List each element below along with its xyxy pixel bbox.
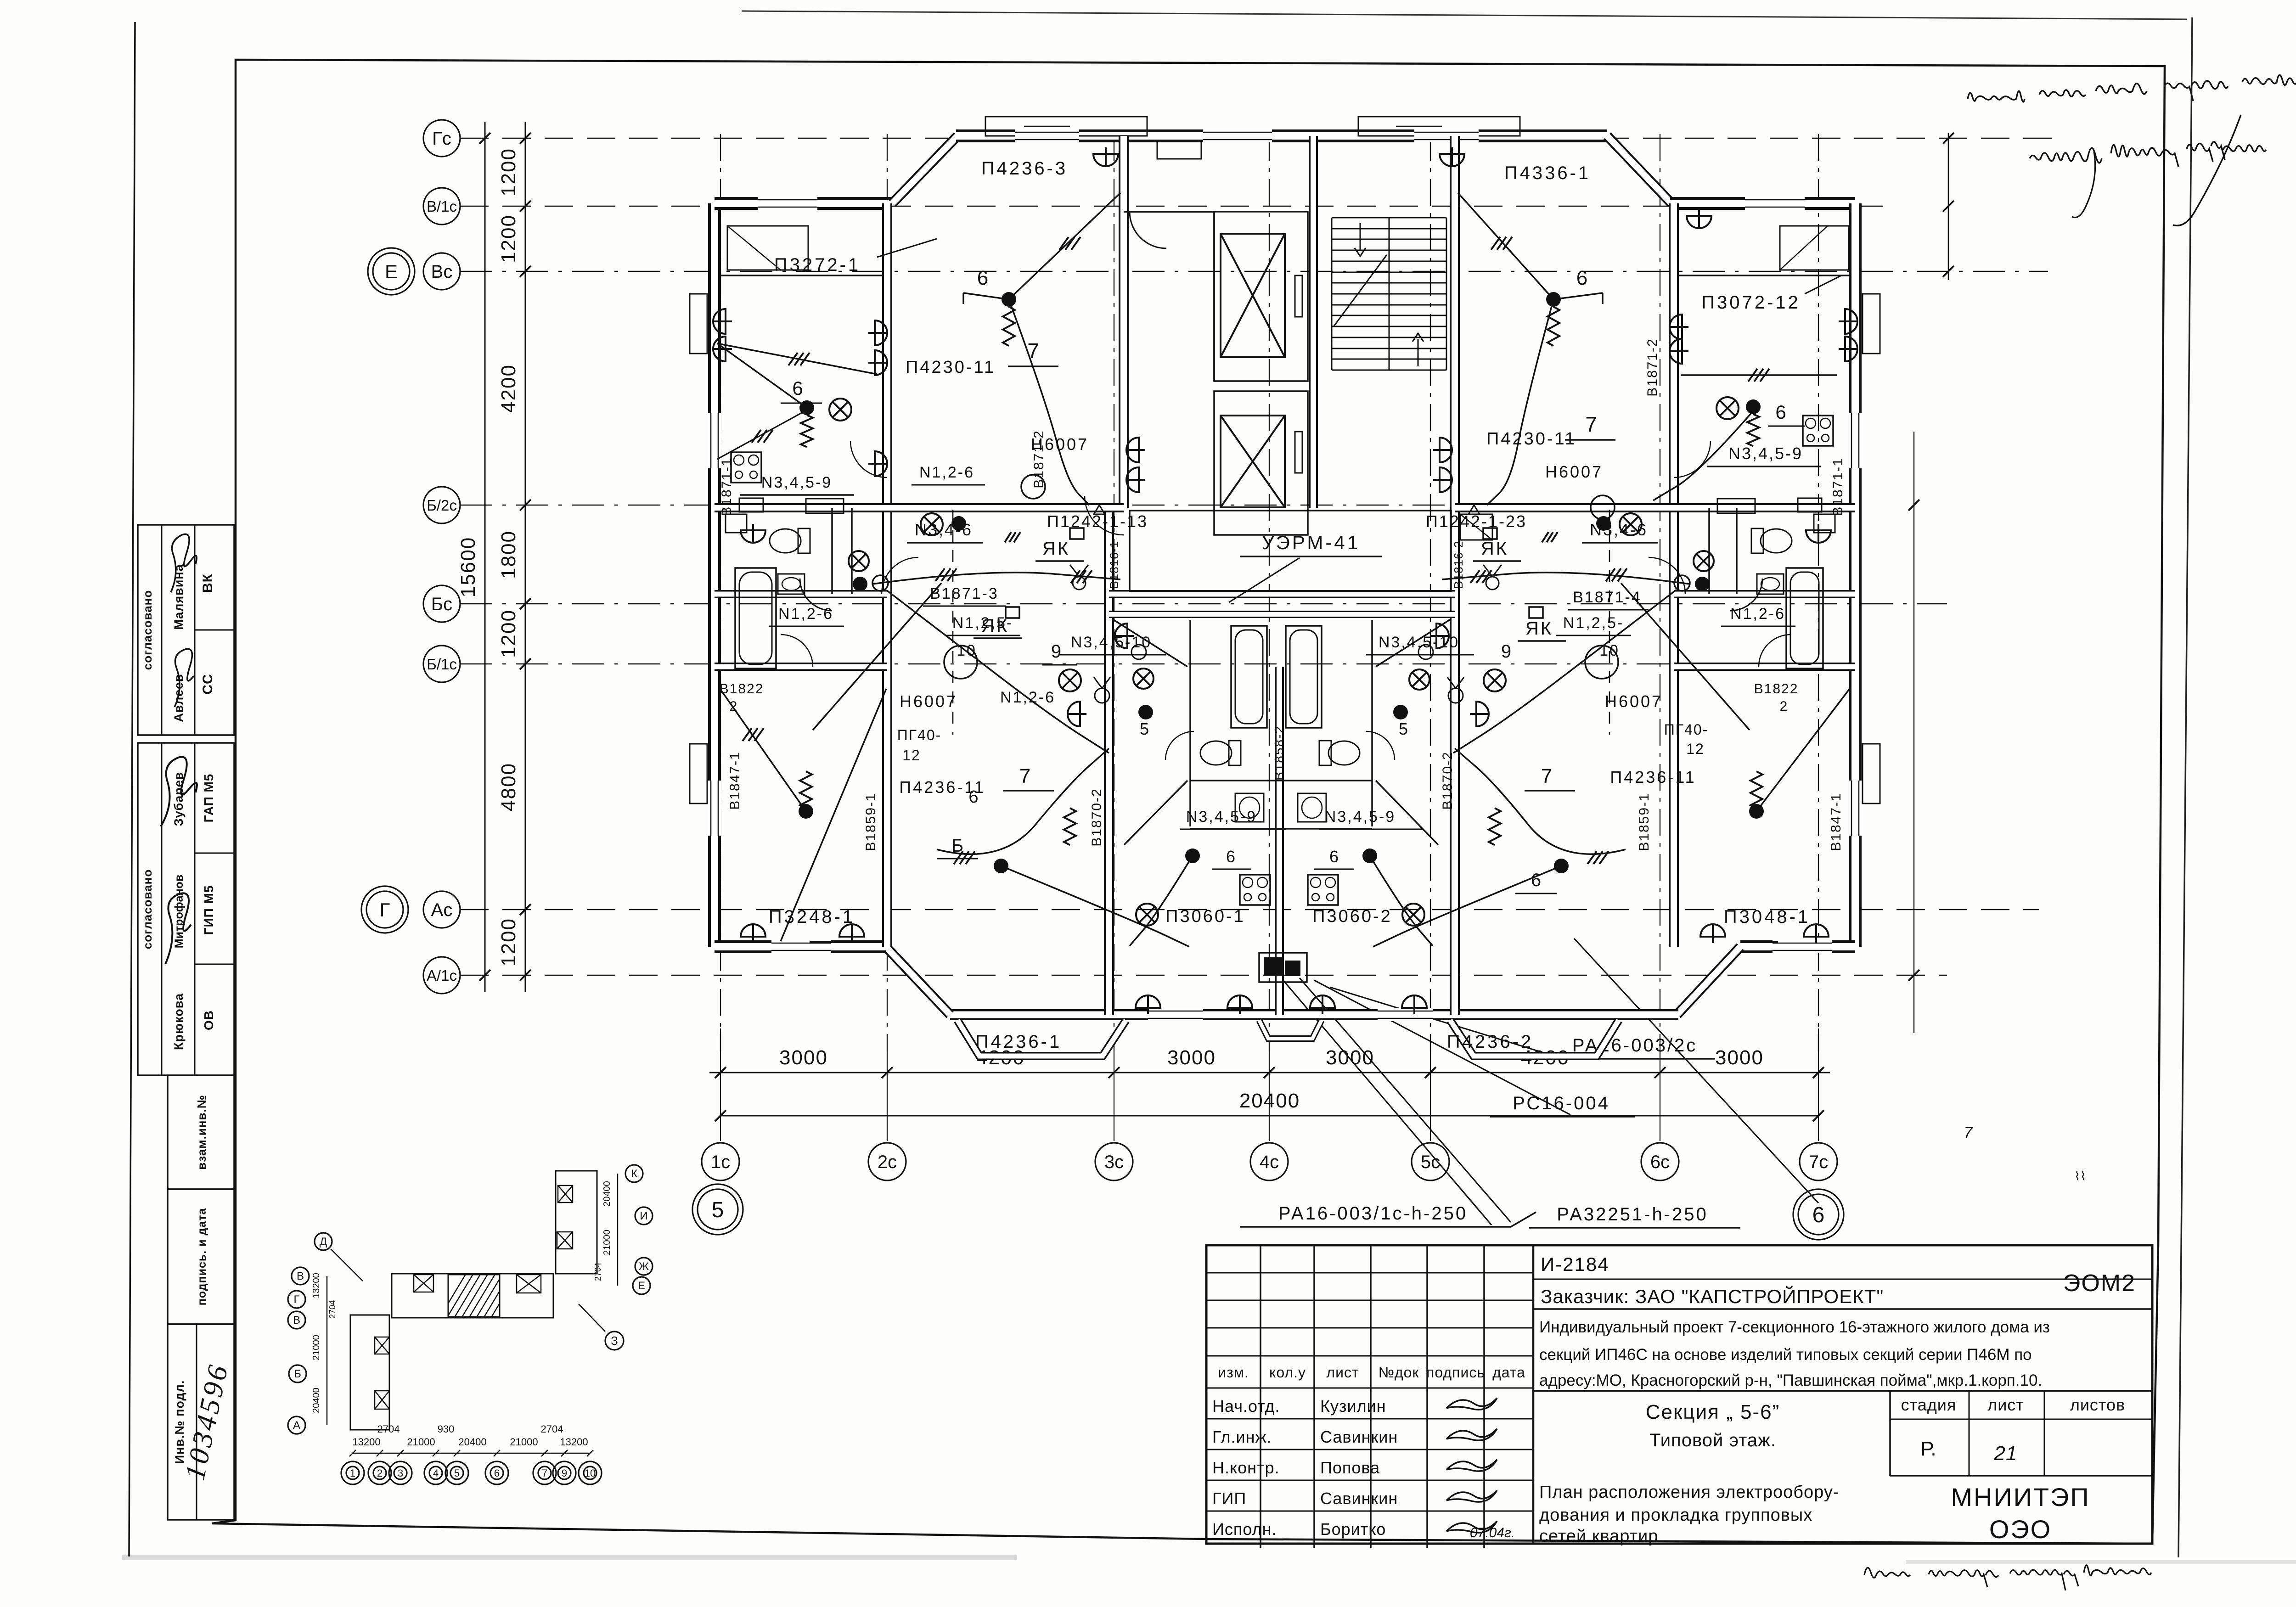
svg-text:подпись. и дата: подпись. и дата	[196, 1208, 208, 1306]
left strip signature squiggle 2	[161, 757, 197, 826]
svg-text:4с: 4с	[1260, 1152, 1279, 1172]
ceiling rose + drop, top-left apt	[1002, 292, 1016, 307]
axis circle А/1с	[423, 957, 460, 994]
axis line А/1с	[460, 975, 1947, 976]
door swing arcs	[1085, 496, 1124, 535]
stair mid stringer	[1389, 218, 1390, 370]
junction box ЯК left	[1070, 528, 1084, 539]
svg-text:N3,4,5-10: N3,4,5-10	[1071, 634, 1152, 651]
svg-text:7: 7	[1019, 765, 1030, 787]
svg-text:ГИП М5: ГИП М5	[202, 885, 216, 935]
svg-text:Вс: Вс	[431, 262, 453, 282]
svg-text:N3,4,5-9: N3,4,5-9	[761, 474, 832, 491]
dashed boundary right	[1609, 510, 1610, 735]
entry hall diagonal wall SE	[1376, 781, 1438, 845]
svg-text:6: 6	[1576, 267, 1587, 289]
bay window SW (П4236-1)	[957, 1020, 1126, 1056]
svg-text:П4230-11: П4230-11	[906, 358, 996, 377]
corridor wires left	[872, 573, 1120, 584]
svg-text:Б/2с: Б/2с	[427, 497, 457, 514]
svg-text:2с: 2с	[878, 1152, 897, 1172]
svg-text:Бс: Бс	[431, 594, 452, 614]
vertical axis line 6с	[1660, 134, 1660, 1051]
УЭРМ room walls	[1130, 511, 1451, 591]
svg-text:21000: 21000	[407, 1436, 435, 1448]
svg-text:7: 7	[542, 1467, 547, 1479]
svg-text:А: А	[293, 1419, 300, 1432]
svg-text:Гл.инж.: Гл.инж.	[1212, 1427, 1272, 1446]
svg-text:подпись: подпись	[1426, 1364, 1485, 1381]
svg-text:Савинкин: Савинкин	[1320, 1427, 1398, 1446]
counter right wing	[1717, 499, 1755, 513]
wall between lifts and stair x2860	[1309, 136, 1318, 508]
partition top-right apt y600	[1678, 275, 1851, 276]
left strip box 3 (взам.инв.№)	[168, 1075, 234, 1189]
svg-text:Ас: Ас	[431, 900, 453, 920]
svg-text:П3248-1: П3248-1	[769, 907, 855, 927]
svg-text:ЭОМ2: ЭОМ2	[2063, 1270, 2136, 1297]
svg-text:6: 6	[968, 787, 978, 807]
center-left apartment wiring	[937, 748, 1109, 854]
svg-text:ОВ: ОВ	[202, 1010, 216, 1030]
wall stair east x3168	[1450, 136, 1460, 508]
axis circle Б/1с	[423, 646, 460, 682]
shower tray center right	[1298, 793, 1326, 822]
svg-text:10: 10	[585, 1467, 596, 1479]
axis circle В/1с	[423, 188, 460, 225]
svg-text:Попова: Попова	[1320, 1458, 1380, 1477]
extension line axis	[1114, 1051, 1114, 1141]
axis line Ас	[460, 909, 2039, 910]
shower tray center left	[1235, 793, 1264, 822]
svg-text:4200: 4200	[497, 364, 520, 413]
svg-text:6: 6	[792, 377, 803, 399]
sink right wing	[1757, 574, 1784, 594]
junction box ЯК right	[1483, 528, 1497, 539]
svg-text:П4336-1: П4336-1	[1504, 163, 1591, 183]
svg-text:2704: 2704	[593, 1263, 602, 1281]
axis circle Ас	[423, 891, 460, 928]
right side extension dim lines	[1948, 133, 1949, 280]
svg-text:В: В	[297, 1270, 304, 1282]
lift shaft 2 outer	[1214, 391, 1308, 535]
key plan axis circle Д	[315, 1233, 332, 1250]
svg-text:Б: Б	[951, 836, 963, 856]
WC center left	[1200, 741, 1241, 765]
axis line Б/1с	[460, 663, 1855, 665]
svg-text:6: 6	[977, 267, 988, 289]
axis circle Е (double)	[373, 253, 410, 290]
circle+cross symbols scattered	[921, 513, 943, 535]
floor distribution boxes center bottom	[1264, 957, 1282, 976]
svg-text:6: 6	[1226, 847, 1235, 866]
key plan axis circle В	[292, 1267, 309, 1285]
svg-text:В1871-2: В1871-2	[1645, 338, 1660, 396]
svg-text:4800: 4800	[497, 763, 520, 811]
stair arrow down	[1418, 339, 1419, 366]
stair diagonal	[1334, 255, 1387, 326]
svg-text:В1871-1: В1871-1	[1830, 457, 1846, 516]
svg-text:согласовано: согласовано	[141, 869, 154, 950]
title block stage table	[1889, 1391, 1891, 1476]
lift shaft 2 door slot	[1295, 432, 1302, 473]
svg-text:В1859-1: В1859-1	[863, 792, 878, 851]
misc shaft right of stair	[1460, 514, 1492, 540]
svg-text:9: 9	[1501, 641, 1511, 662]
corridor wall y1452 right	[1674, 663, 1855, 671]
drawing frame border	[212, 60, 2165, 1544]
center bath west wall	[1189, 620, 1191, 826]
outer wall left wing west	[708, 203, 721, 947]
axis circle Гс	[423, 120, 460, 157]
window opening	[758, 197, 817, 210]
vertical dimension line (segments)	[525, 122, 526, 992]
title block signature grid	[1260, 1245, 1261, 1548]
partition bath right wing	[1736, 508, 1738, 594]
wall x3168 lower	[1450, 508, 1460, 1015]
key plan axis circle Е	[633, 1277, 650, 1294]
wall apartment divider right x3645	[1669, 203, 1679, 947]
axis line Бс	[460, 603, 1947, 605]
svg-text:13200: 13200	[560, 1436, 588, 1448]
svg-text:7с: 7с	[1809, 1152, 1828, 1172]
axis circle 5с	[1412, 1143, 1449, 1180]
key plan lift boxes middle	[414, 1275, 433, 1292]
svg-text:адресу:МО, Красногорский р-н,: адресу:МО, Красногорский р-н, "Павшинска…	[1539, 1371, 2042, 1389]
svg-text:П3048-1: П3048-1	[1724, 907, 1810, 927]
svg-text:Б/1с: Б/1с	[427, 656, 457, 673]
leader diagonals to feeder labels	[1281, 978, 1491, 1225]
left strip box 2 (согласовано ГАП ГИП ОВ)	[138, 743, 234, 1075]
svg-text:П3060-1: П3060-1	[1165, 907, 1245, 926]
key plan right dim line	[617, 1174, 619, 1286]
svg-text:И-2184: И-2184	[1541, 1253, 1609, 1275]
outer wall right wing east	[1849, 203, 1862, 947]
window opening	[1378, 1008, 1433, 1021]
axis circle 1с	[702, 1143, 739, 1180]
key plan left leg	[350, 1315, 389, 1430]
svg-text:7: 7	[1541, 765, 1552, 787]
extension line axis	[1660, 1051, 1660, 1141]
staircase flight	[1332, 217, 1446, 219]
key plan axis circle И	[635, 1207, 653, 1225]
WC left wing	[770, 528, 810, 553]
svg-text:В1816-2: В1816-2	[1452, 540, 1465, 589]
svg-text:Боритко: Боритко	[1320, 1520, 1386, 1539]
svg-text:РА32251-h-250: РА32251-h-250	[1557, 1204, 1708, 1225]
left strip signature squiggle 1	[171, 534, 197, 592]
svg-text:Р.: Р.	[1920, 1438, 1936, 1460]
svg-text:дата: дата	[1492, 1364, 1525, 1381]
svg-text:И: И	[640, 1210, 647, 1222]
svg-text:стадия: стадия	[1901, 1395, 1957, 1414]
window opening	[1015, 129, 1079, 142]
key plan axis circle Г	[288, 1291, 305, 1308]
outer wall left wing south	[715, 940, 886, 953]
svg-text:В: В	[293, 1314, 300, 1326]
left wing room wiring	[713, 309, 732, 334]
window opening	[1148, 1008, 1203, 1021]
svg-text:ГАП М5: ГАП М5	[202, 774, 216, 823]
svg-text:21000: 21000	[510, 1436, 538, 1448]
bottom dimension line 2 (20400)	[720, 1115, 1818, 1117]
svg-text:1200: 1200	[497, 148, 520, 197]
corridor wires right	[1442, 573, 1690, 584]
svg-text:В1858-2: В1858-2	[1272, 725, 1286, 781]
svg-text:П4230-11: П4230-11	[1486, 429, 1576, 449]
wall center party x2786	[1275, 667, 1284, 1015]
svg-text:Н6007: Н6007	[900, 692, 957, 711]
svg-text:З: З	[611, 1334, 618, 1348]
svg-text:Кузилин: Кузилин	[1320, 1397, 1386, 1416]
window opening	[708, 781, 721, 836]
corridor wall y1452 left	[715, 663, 887, 671]
balcony slab top left	[985, 117, 1147, 136]
svg-text:13200: 13200	[352, 1436, 380, 1448]
sconce top wall right wing	[1687, 209, 1711, 228]
svg-text:В1871-2: В1871-2	[1031, 430, 1047, 488]
window bay west upper	[690, 294, 707, 354]
svg-text:3с: 3с	[1104, 1152, 1124, 1172]
svg-text:П1242-1-23: П1242-1-23	[1426, 512, 1527, 531]
vertical axis line 7с	[1818, 134, 1819, 1051]
svg-text:4: 4	[433, 1467, 439, 1479]
svg-text:6: 6	[494, 1467, 500, 1479]
extension line axis	[1269, 1051, 1270, 1141]
svg-text:9: 9	[562, 1467, 567, 1479]
svg-text:10: 10	[957, 642, 977, 659]
svg-text:6с: 6с	[1650, 1152, 1670, 1172]
svg-text:N1,2-6: N1,2-6	[919, 464, 974, 481]
svg-text:ПГ40-: ПГ40-	[897, 727, 942, 743]
svg-text:Ж: Ж	[639, 1260, 649, 1273]
svg-text:3000: 3000	[1715, 1046, 1764, 1069]
svg-text:Е: Е	[638, 1280, 645, 1292]
svg-text:Н6007: Н6007	[1545, 462, 1603, 481]
svg-text:П4236-2: П4236-2	[1447, 1032, 1533, 1052]
svg-text:Гс: Гс	[432, 129, 451, 149]
svg-text:В1822: В1822	[720, 681, 764, 697]
svg-text:12: 12	[902, 747, 921, 764]
wall x2415 lower	[1104, 508, 1114, 1015]
key plan hatched section (current)	[448, 1275, 500, 1317]
handwritten note line 1 (Муниципальные)	[1968, 91, 2025, 101]
svg-text:7: 7	[1964, 1124, 1973, 1141]
svg-text:2704: 2704	[377, 1423, 400, 1435]
svg-text:20400: 20400	[311, 1388, 321, 1413]
svg-text:Д: Д	[320, 1236, 327, 1248]
svg-text:ЯК: ЯК	[1042, 539, 1070, 559]
svg-text:6: 6	[1812, 1203, 1825, 1227]
junction box ЯК right lower	[1529, 607, 1543, 618]
extension line axis	[1430, 1051, 1431, 1141]
counter left wing	[806, 499, 844, 513]
bay window SE (П4236-2)	[1450, 1020, 1619, 1056]
corridor wall y1294 center	[1109, 590, 1455, 598]
svg-text:Н6007: Н6007	[1605, 692, 1663, 711]
svg-text:3: 3	[398, 1467, 403, 1479]
svg-text:2: 2	[1780, 699, 1789, 714]
entry hall diagonal wall NE	[1376, 619, 1451, 667]
switch group center	[1126, 438, 1145, 462]
svg-text:Малявина: Малявина	[172, 564, 186, 629]
key plan axis circle А	[288, 1416, 305, 1434]
svg-text:лист: лист	[1987, 1395, 2024, 1414]
section circle 5 (double)	[698, 1189, 738, 1230]
scan edge top line	[742, 11, 2187, 19]
bath entry symbols center-left	[1138, 705, 1153, 719]
axis circle Вс	[423, 253, 460, 290]
partition bath left wing	[831, 508, 833, 594]
svg-text:Заказчик: ЗАО "КАПСТРОЙПРОЕКТ": Заказчик: ЗАО "КАПСТРОЙПРОЕКТ"	[1541, 1285, 1884, 1307]
svg-text:9: 9	[1051, 641, 1061, 662]
balcony slab top right	[1358, 117, 1520, 136]
junction box ЯК left lower	[1006, 607, 1019, 618]
svg-text:УЭРМ-41: УЭРМ-41	[1262, 532, 1360, 553]
svg-text:взам.инв.№: взам.инв.№	[195, 1095, 208, 1169]
svg-text:Н.контр.: Н.контр.	[1212, 1458, 1280, 1477]
WC right wing	[1751, 528, 1792, 553]
svg-text:Г: Г	[380, 899, 390, 921]
svg-text:Типовой этаж.: Типовой этаж.	[1649, 1430, 1776, 1450]
svg-text:3000: 3000	[1167, 1046, 1216, 1069]
key plan jogs	[391, 1274, 393, 1295]
bottom dimension line 1	[709, 1072, 1830, 1073]
svg-text:№док: №док	[1379, 1364, 1419, 1381]
svg-text:В1847-1: В1847-1	[1829, 792, 1844, 851]
WC center right	[1319, 741, 1360, 765]
vertical dimension line (total 15600)	[484, 122, 486, 992]
scan bottom smudge right	[1906, 1560, 2296, 1564]
wall Б/2с horizontal left	[715, 503, 1124, 512]
key plan building footprint	[392, 1274, 553, 1318]
outer wall NW bay diagonal	[892, 136, 957, 203]
handwritten scribble below title block	[1864, 1568, 1910, 1578]
bottom center rooms wiring	[1185, 848, 1200, 863]
left strip box 1 (согласовано ВК СС)	[138, 525, 234, 735]
svg-text:12: 12	[1686, 741, 1705, 757]
svg-text:согласовано: согласовано	[141, 590, 154, 670]
bottom-right room wiring (П3048-1)	[1756, 689, 1850, 811]
svg-text:6: 6	[1531, 870, 1541, 890]
dashed boundary left	[952, 510, 954, 735]
svg-text:П4236-11: П4236-11	[1610, 768, 1696, 787]
svg-text:7: 7	[1585, 412, 1597, 436]
svg-text:П3272-1: П3272-1	[774, 255, 861, 275]
svg-text:Г: Г	[294, 1293, 300, 1306]
svg-text:СС: СС	[200, 674, 215, 694]
svg-text:В1870-2: В1870-2	[1089, 788, 1104, 846]
entry hall diagonal wall SW	[1124, 781, 1187, 845]
phone/switch symbols corridor	[1073, 577, 1086, 590]
svg-text:Е: Е	[385, 261, 398, 282]
svg-text:15600: 15600	[457, 537, 479, 597]
svg-text:МНИИТЭП: МНИИТЭП	[1951, 1483, 2090, 1511]
corridor wall y1294 left wing	[715, 590, 887, 598]
partition top-left apt y600	[719, 275, 883, 276]
svg-text:В/1с: В/1с	[427, 198, 457, 215]
center bath partition y1700	[1190, 780, 1372, 781]
axis circle Г (double)	[366, 891, 403, 928]
svg-text:6: 6	[1775, 401, 1786, 423]
scan edge right line	[2178, 17, 2192, 1557]
key plan bottom axis circles	[346, 1467, 359, 1479]
lobby door arc	[1130, 212, 1166, 248]
extension line axis	[720, 1051, 721, 1141]
key plan circle З with leader	[605, 1332, 624, 1350]
ceiling rose + drop, top-right apt	[1546, 292, 1561, 307]
svg-text:ВК: ВК	[200, 573, 215, 593]
axis circle 7с	[1800, 1143, 1837, 1180]
bathtub center left	[1231, 626, 1267, 728]
svg-text:В1871-3: В1871-3	[930, 585, 999, 602]
outer wall right wing north	[1670, 197, 1855, 210]
axis line В/1с	[460, 206, 1892, 207]
svg-text:П3060-2: П3060-2	[1312, 907, 1392, 926]
axis line Б/2с	[460, 505, 1855, 506]
wall Б/2с horizontal right	[1455, 503, 1855, 512]
svg-text:Нач.отд.: Нач.отд.	[1212, 1397, 1280, 1416]
axis circle Б/2с	[423, 487, 460, 523]
svg-text:2: 2	[730, 699, 738, 714]
svg-text:П1242-1-13: П1242-1-13	[1047, 512, 1148, 531]
switch group left wing	[868, 320, 887, 345]
svg-text:Секция „ 5-6”: Секция „ 5-6”	[1646, 1401, 1780, 1423]
svg-text:1800: 1800	[497, 530, 520, 579]
closet top-right with diagonal	[1780, 226, 1849, 270]
window opening	[771, 940, 831, 953]
svg-text:7: 7	[1027, 339, 1039, 363]
svg-text:ЯК: ЯК	[1481, 539, 1508, 559]
svg-text:1с: 1с	[711, 1152, 730, 1172]
svg-text:5: 5	[712, 1198, 724, 1222]
bath entry symbols center-right	[1393, 705, 1408, 719]
svg-text:Савинкин: Савинкин	[1320, 1489, 1398, 1508]
svg-text:листов: листов	[2070, 1395, 2125, 1414]
svg-text:ГИП: ГИП	[1212, 1489, 1246, 1508]
outer wall top center	[956, 129, 1607, 142]
window bay east upper	[1863, 294, 1880, 354]
svg-text:N1,2-6: N1,2-6	[778, 605, 833, 623]
window opening	[1849, 413, 1862, 468]
svg-text:1200: 1200	[497, 214, 520, 263]
svg-text:1200: 1200	[497, 609, 520, 658]
svg-text:1: 1	[350, 1467, 355, 1479]
svg-text:В1859-1: В1859-1	[1637, 792, 1652, 851]
half-moon switches bottom	[1115, 624, 1134, 648]
center bottom balcony stub	[1259, 1020, 1322, 1039]
window bay west lower	[690, 744, 707, 803]
svg-text:П4236-1: П4236-1	[975, 1032, 1062, 1052]
left strip box 4 (подпись и дата)	[168, 1189, 234, 1324]
vent shaft center top	[1157, 140, 1201, 159]
outer wall NE bay diagonal	[1607, 136, 1671, 203]
stove right wing kitchen	[1803, 416, 1833, 446]
section circle 6 (double)	[1798, 1194, 1839, 1235]
lift shaft 1 car	[1221, 234, 1285, 357]
lift shaft 2 car	[1221, 416, 1285, 507]
svg-text:В1870-2: В1870-2	[1440, 751, 1455, 809]
sink left wing	[778, 574, 805, 594]
stove left wing kitchen	[731, 452, 761, 483]
svg-text:ОЭО: ОЭО	[1989, 1515, 2052, 1544]
handwritten note line 2 (квартиры)	[2030, 148, 2102, 163]
lift shaft 1 door slot	[1295, 275, 1302, 317]
svg-text:N1,2-6: N1,2-6	[1730, 605, 1785, 623]
svg-text:ЯК: ЯК	[1525, 618, 1553, 639]
extension line axis	[887, 1051, 888, 1141]
svg-text:N3,4,5-9: N3,4,5-9	[1728, 444, 1803, 463]
